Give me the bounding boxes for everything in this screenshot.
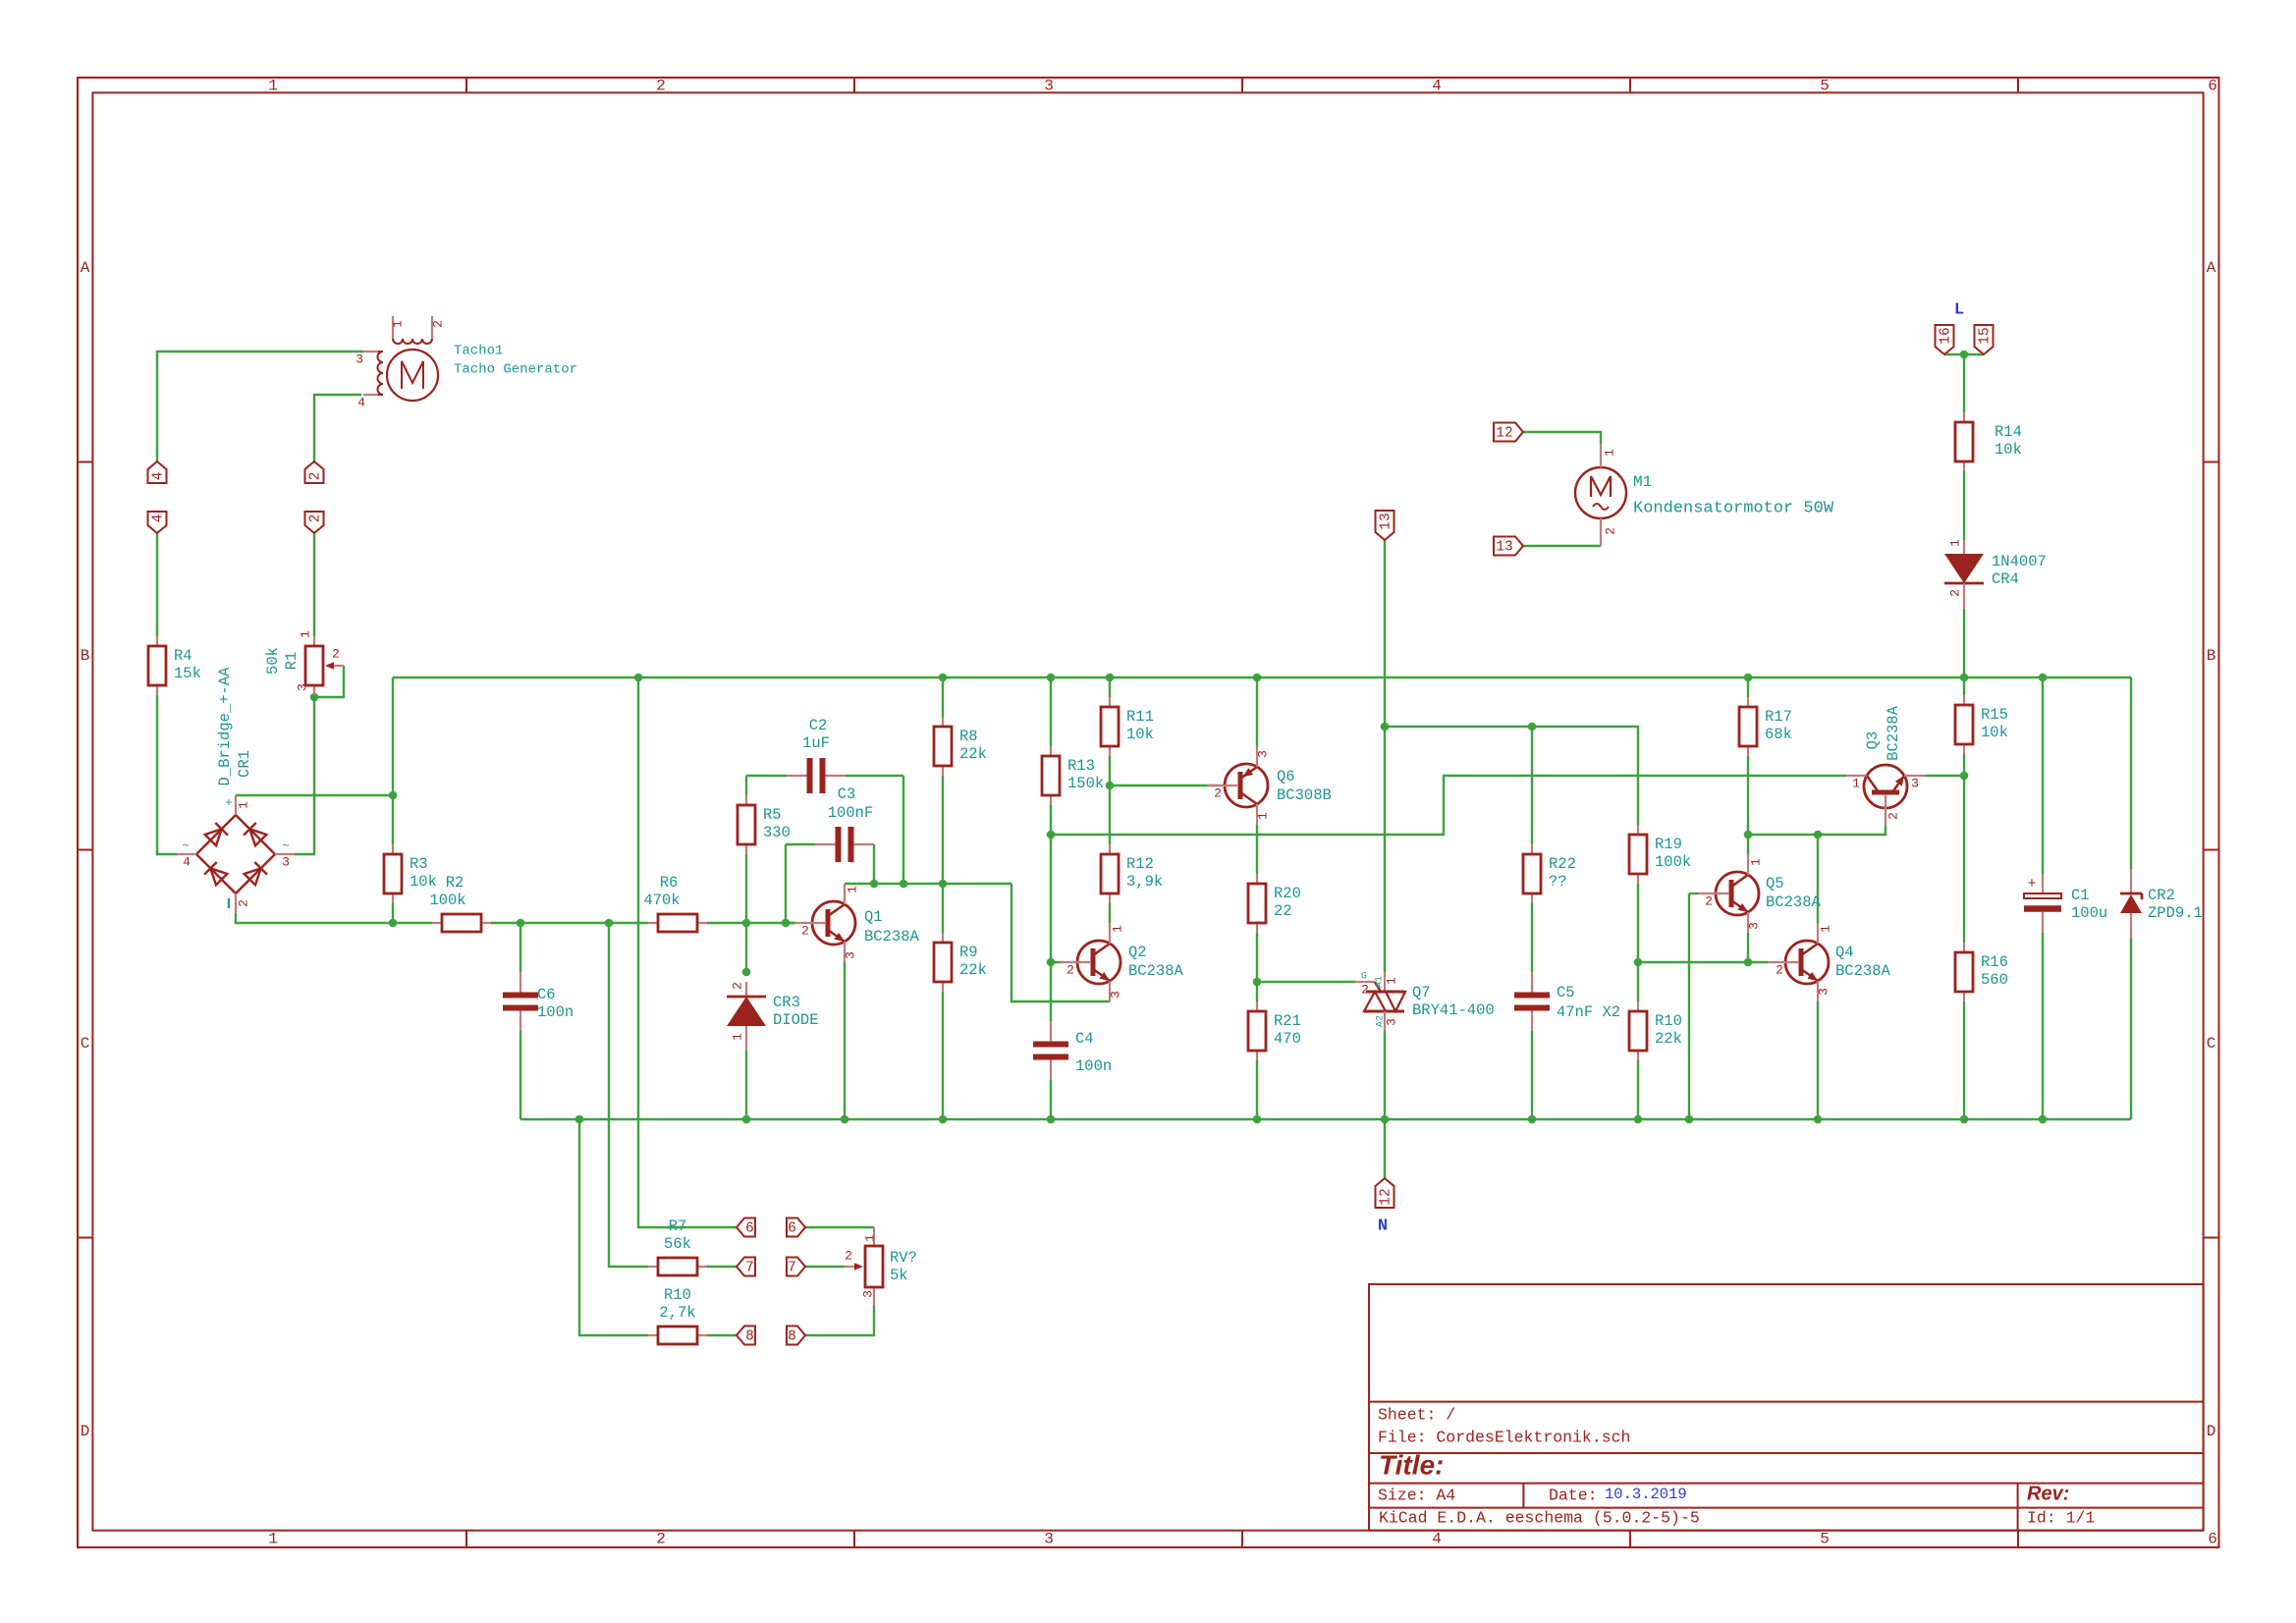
wire L to R14 [1963,354,1965,412]
global label 12 (M1) [1494,423,1523,442]
Q2 labels [1128,944,1184,980]
svg-text:1: 1 [236,801,250,809]
RV pin numbers [845,1234,877,1298]
resistor R17 [1739,697,1792,756]
svg-text:Q7: Q7 [1412,984,1431,1001]
svg-text:N: N [1378,1217,1388,1235]
wire rail to pin12 [1384,1119,1386,1178]
transistor Q6 (PNP) [1207,746,1268,825]
wire node to Q4 collector [1817,835,1819,923]
global label 8 (right) [787,1326,805,1345]
wire right rail to CR2 top [2130,677,2132,869]
junction R8 R9 collector line [939,880,948,889]
svg-text:2: 2 [656,1531,666,1548]
resistor R10 22k [1629,1001,1682,1060]
resistor R3 [384,844,437,903]
svg-text:10.3.2019: 10.3.2019 [1605,1486,1687,1503]
wire C2 node to R5 [745,776,747,795]
svg-text:~: ~ [182,839,189,853]
svg-text:C6: C6 [537,986,556,1003]
junction top rail x=960 [939,674,948,682]
svg-text:22: 22 [1274,902,1292,920]
svg-text:1: 1 [1110,925,1124,933]
title block frame [1369,1284,2204,1531]
svg-text:DIODE: DIODE [773,1011,819,1029]
wire R19 to Q4 base line [1638,961,1768,963]
wire R11 node to Q6 base [1110,784,1218,786]
wire Q3 emitter to node [1925,775,1964,777]
wire Q4 emitter to bottom rail [1817,1001,1819,1119]
svg-text:3: 3 [1044,78,1054,95]
wire gate node to R21 [1256,982,1258,1001]
svg-text:2: 2 [1066,962,1074,977]
junction bridge plus node [389,791,398,800]
diode CR4 1N4007 [1944,540,2047,609]
svg-text:2: 2 [1361,982,1369,997]
svg-text:BC238A: BC238A [864,928,920,946]
svg-text:1: 1 [1818,925,1832,933]
svg-text:4: 4 [150,472,166,481]
svg-text:R12: R12 [1126,855,1154,873]
Q1 labels [864,908,920,946]
svg-text:1: 1 [845,886,859,893]
wire R17 bottom to node [1747,756,1749,835]
svg-text:50k: 50k [264,647,282,675]
junction bottom rail x=2000 [1960,1115,1969,1124]
svg-text:R8: R8 [959,728,978,745]
junction R22 top [1528,723,1537,731]
svg-text:Q5: Q5 [1766,875,1784,893]
capacitor C5 [1514,972,1620,1031]
junction R1 wiper node [310,693,319,702]
wire node to Q2 base and C4 [1050,835,1052,1021]
svg-text:2: 2 [1886,812,1900,820]
global label 13 (net) [1376,511,1394,540]
svg-text:+: + [2027,876,2036,893]
svg-text:2: 2 [332,646,340,661]
tacho generator Tacho1 [363,316,438,401]
svg-text:47nF X2: 47nF X2 [1557,1003,1620,1021]
triac Q7 BRY41-400 [1355,972,1495,1031]
svg-text:4: 4 [1432,1531,1442,1548]
wire R3 to base line [392,903,394,923]
wire R17 top [1747,677,1749,697]
svg-text:3: 3 [1911,776,1919,790]
junction L node [1960,351,1969,359]
wire C6 top [519,923,521,972]
svg-text:C4: C4 [1075,1030,1094,1048]
junction Q5 emitter node [1744,958,1753,967]
junction bottom rail x=1410 [1381,1115,1390,1124]
Tacho1 labels [454,344,577,378]
svg-text:R3: R3 [410,855,428,873]
svg-text:2: 2 [801,923,809,938]
wire node to Q5 collector [1747,835,1749,856]
wire rail to R13 [1050,677,1052,746]
svg-text:4: 4 [150,514,166,523]
svg-text:2: 2 [656,78,666,95]
svg-text:1: 1 [390,320,405,328]
svg-text:15: 15 [1977,327,1993,344]
svg-text:Rev:: Rev: [2027,1483,2069,1504]
svg-text:C: C [81,1035,90,1053]
svg-text:Date:: Date: [1549,1486,1598,1504]
svg-text:R4: R4 [174,647,192,665]
wire CR2 bottom to rail [2130,938,2132,1119]
resistor R9 [934,933,987,992]
wire top rail +V [393,676,2131,678]
svg-text:1: 1 [298,630,312,638]
M1 labels [1633,473,1834,517]
svg-text:13: 13 [1496,539,1512,555]
wire hex4 to R4 [156,533,158,636]
wire node to R19 [1385,727,1638,825]
junction bottom rail x=1720 [1685,1115,1694,1124]
Q1 pin numbers [801,886,859,959]
svg-text:BC308B: BC308B [1277,786,1332,804]
global label 7 (left) [737,1258,755,1276]
junction bottom rail x=760 [742,1115,751,1124]
svg-text:22k: 22k [959,745,987,763]
svg-text:3: 3 [1384,1018,1398,1026]
CR4 pin numbers [1947,539,1962,597]
svg-text:Q1: Q1 [864,908,883,926]
svg-text:330: 330 [763,824,791,841]
svg-text:12: 12 [1496,425,1512,441]
junction R13 node [1047,831,1056,839]
svg-text:2: 2 [1603,527,1617,535]
svg-text:Kondensatormotor 50W: Kondensatormotor 50W [1633,499,1834,517]
wire R12 to Q2 collector [1109,903,1111,923]
border row letters [81,259,2216,1440]
svg-text:Tacho Generator: Tacho Generator [454,362,577,378]
svg-text:2: 2 [845,1248,852,1263]
svg-text:B: B [81,647,90,665]
svg-text:R13: R13 [1067,757,1095,775]
junction R5 CR3 base line [742,919,751,928]
junction C3 base line [782,919,791,928]
wire rail to R11 [1109,677,1111,697]
wire C1 bottom [2042,933,2044,1119]
wire triac gate line [1257,981,1355,983]
svg-text:5: 5 [1820,78,1830,95]
wire R10 bottom to rail [1637,1060,1639,1119]
wire node to bridge pin3 [295,697,314,854]
wire Q1 emitter to bottom rail [844,962,846,1119]
capacitor C1 100u (polarized) [2024,874,2107,933]
junction top rail x=2000 [1960,674,1969,682]
svg-text:CR2: CR2 [2148,887,2175,904]
svg-text:6: 6 [2208,78,2217,95]
svg-text:R9: R9 [959,944,978,961]
wire R8 to collector line [942,776,944,884]
svg-text:C1: C1 [2071,887,2090,904]
wire node to R22 [1531,727,1533,844]
svg-text:1: 1 [1602,449,1616,457]
wire R14 to CR4 [1963,471,1965,540]
wire RV pin3 to hex8b [805,1306,874,1335]
junction bottom rail x=860 [841,1115,849,1124]
junction CR3 top [742,968,751,977]
svg-text:Q6: Q6 [1277,768,1295,785]
global label 15 [1975,325,1994,354]
svg-text:1: 1 [862,1234,877,1242]
wire R15 to node [1963,754,1965,776]
svg-text:3: 3 [295,683,309,691]
resistor R8 [934,717,987,776]
svg-text:Id: 1/1: Id: 1/1 [2027,1508,2095,1527]
wire base line down to R7 row [609,923,648,1267]
svg-text:1: 1 [268,1531,278,1548]
svg-text:Q4: Q4 [1835,944,1854,961]
svg-text:13: 13 [1378,513,1394,529]
svg-text:10k: 10k [410,873,437,891]
svg-text:68k: 68k [1765,726,1792,743]
wire R10 to hex8 [707,1334,737,1336]
potentiometer R1 [264,636,344,695]
svg-text:3: 3 [355,352,363,366]
svg-text:5k: 5k [890,1267,908,1284]
wire R19 bottom [1637,884,1639,962]
junction top rail x=1280 [1253,674,1262,682]
svg-text:BC238A: BC238A [1885,705,1902,761]
Q5 pin numbers [1705,858,1763,930]
svg-text:R15: R15 [1981,706,2008,724]
Q3 pin numbers [1852,776,1919,819]
svg-text:Size: A4: Size: A4 [1378,1486,1455,1504]
resistor R16 [1955,943,2008,1001]
svg-text:D: D [2207,1423,2216,1440]
svg-text:R10: R10 [1655,1012,1682,1030]
svg-text:10k: 10k [1126,726,1154,743]
svg-text:BC238A: BC238A [1128,962,1184,980]
svg-text:R19: R19 [1655,836,1682,853]
wire Q5 emitter to base line [1747,933,1749,962]
Q6 pin numbers [1214,750,1270,820]
svg-text:2: 2 [1947,589,1962,597]
zener diode CR2 ZPD9.1 [2120,869,2203,938]
wire R16 to bottom rail [1963,1001,1965,1119]
wire C1 top [2042,677,2044,874]
Q4 labels [1835,944,1891,980]
svg-text:R1: R1 [283,652,301,671]
transistor Q4 [1768,923,1829,1001]
svg-text:7: 7 [788,1260,796,1275]
svg-text:470k: 470k [643,892,680,909]
resistor R6 [643,874,707,932]
wire node to R12 [1109,785,1111,844]
wire Q2 emitter to collector line [1011,884,1110,1001]
CR1 pin labels [182,796,290,908]
svg-text:??: ?? [1549,873,1567,891]
capacitor C6 [503,972,574,1031]
svg-text:3: 3 [1108,991,1122,999]
CR3 pin numbers [730,982,744,1041]
junction bottom rail x=1668 [1634,1115,1643,1124]
svg-text:3: 3 [282,854,290,869]
wire node to R10 [1637,962,1639,1001]
svg-text:C3: C3 [838,785,856,803]
svg-text:2: 2 [1214,785,1222,800]
global label 6 (left) [737,1218,755,1237]
svg-text:2: 2 [236,899,250,907]
svg-text:150k: 150k [1067,775,1104,792]
wire rail to R8 [942,677,944,717]
svg-text:Tacho1: Tacho1 [454,344,503,359]
svg-text:R2: R2 [446,874,465,892]
junction bottom rail x=1070 [1047,1115,1056,1124]
resistor R2 [429,874,491,932]
svg-text:+: + [225,796,232,810]
svg-text:1: 1 [1255,812,1270,820]
resistor R12 [1101,844,1163,903]
wire Q5 base to bottom rail [1688,893,1690,1119]
transistor Q5 [1698,854,1759,933]
transistor Q1 [794,884,855,962]
svg-text:ZPD9.1: ZPD9.1 [2148,904,2203,922]
svg-text:R22: R22 [1549,855,1576,873]
svg-text:KiCad E.D.A. eeschema (5.0.2-: KiCad E.D.A. eeschema (5.0.2-5)-5 [1379,1508,1700,1527]
svg-text:2: 2 [730,982,744,990]
svg-text:6: 6 [2208,1531,2217,1548]
motor M1 Kondensatormotor [1575,444,1626,546]
junction R3 base line [389,919,398,928]
svg-text:100u: 100u [2071,904,2107,922]
svg-text:3: 3 [1255,750,1270,758]
junction C2 collector line [900,880,908,889]
svg-text:8: 8 [788,1328,796,1344]
wire Q1 collector line [845,883,1011,885]
wire R22 to C5 [1531,903,1533,972]
global label 6 (right) [787,1218,805,1237]
svg-text:CR3: CR3 [773,994,800,1011]
svg-text:3: 3 [1044,1531,1054,1548]
wire R9 to bottom rail [942,992,944,1119]
svg-text:R6: R6 [660,874,679,892]
wire hex7b to RV wiper [805,1266,845,1268]
junction Q2 base [1047,958,1056,967]
potentiometer RV? [845,1227,917,1306]
svg-text:RV?: RV? [890,1249,917,1267]
capacitor C3 [815,785,874,862]
svg-text:~: ~ [282,839,289,853]
svg-text:1: 1 [1748,858,1763,866]
capacitor C2 [787,717,846,793]
svg-text:4: 4 [357,395,365,409]
svg-text:1: 1 [1947,539,1962,547]
capacitor C4 [1033,1021,1112,1080]
svg-text:1: 1 [1384,977,1398,985]
svg-text:7: 7 [745,1260,754,1275]
wire pin13 net vertical [1384,540,1386,727]
svg-text:100n: 100n [1075,1057,1112,1075]
diode CR3 [727,982,819,1051]
global label 8 (left) [737,1326,755,1345]
global label 4 (upper) [148,461,167,483]
global label 13 (M1) [1494,537,1523,556]
wire C6 bottom to rail [519,1031,521,1119]
global label 2 (lower) [305,512,324,533]
svg-text:3,9k: 3,9k [1126,873,1163,891]
wire R6 to Q1 base [707,922,795,924]
resistor R14 [1955,412,2022,471]
wire Q1 base stub [786,922,795,924]
Q5 labels [1766,875,1822,911]
svg-text:1: 1 [1852,776,1860,790]
svg-text:A: A [81,259,90,277]
svg-text:BC238A: BC238A [1766,893,1822,911]
svg-text:6: 6 [745,1220,754,1236]
svg-text:C: C [2207,1035,2216,1053]
svg-text:2: 2 [307,472,323,481]
wire R7 to hex7 [707,1266,737,1268]
wire collector line to R9 [942,884,944,933]
svg-text:BRY41-400: BRY41-400 [1412,1001,1495,1019]
junction top rail x=650 [634,674,643,682]
svg-text:2: 2 [307,514,323,523]
wire rail junction down to row6 [638,677,737,1227]
junction row7 tap [605,919,614,928]
resistor R20 [1248,874,1301,933]
svg-text:100n: 100n [537,1003,574,1021]
wire triac A2 to rail [1384,1031,1386,1119]
svg-text:8: 8 [745,1328,754,1344]
global label 7 (right) [787,1258,805,1276]
wire rail to R15 [1963,677,1965,695]
wire rail to R3 [392,677,394,844]
global label 16 [1936,325,1954,354]
junction C6 top [517,919,525,928]
svg-text:R5: R5 [763,806,782,824]
wire hex16-hex15 bridge [1944,353,1984,355]
svg-text:5: 5 [1820,1531,1830,1548]
svg-text:R7: R7 [669,1217,687,1235]
junction Q4 collector node [1814,831,1823,839]
svg-text:R20: R20 [1274,885,1301,902]
junction top rail x=1070 [1047,674,1056,682]
svg-text:4: 4 [183,854,191,869]
svg-text:CR1: CR1 [236,750,253,778]
wire node to triac A1 [1384,727,1386,972]
border column numbers [268,78,2217,1548]
wire tacho pin4 to hex2 [314,395,361,461]
junction bottom rail x=960 [939,1115,948,1124]
svg-text:10k: 10k [1981,724,2008,741]
wire CR4 to top rail [1963,609,1965,677]
wire C4 to bottom rail [1050,1080,1052,1119]
R1 pin numbers [295,630,339,691]
wire R1 wiper down [314,666,344,697]
Q6 labels [1277,768,1332,804]
junction bottom rail x=1560 [1528,1115,1537,1124]
junction R20 R21 gate node [1253,978,1262,987]
resistor R7 [648,1217,707,1275]
svg-text:BC238A: BC238A [1835,962,1891,980]
wire Q5 base stub [1689,893,1699,894]
svg-text:D_Bridge_+-AA: D_Bridge_+-AA [216,667,234,786]
svg-text:6: 6 [788,1220,796,1236]
wire tacho pin3 to hex4 [157,352,363,461]
wire bridge plus to R3 node [236,794,393,796]
transistor Q3 (rotated) [1846,765,1925,826]
svg-text:12: 12 [1378,1188,1394,1205]
junction R19 R10 node [1634,958,1643,967]
svg-text:M1: M1 [1633,473,1652,491]
wire R11 to node [1109,756,1111,785]
svg-text:1uF: 1uF [802,734,830,752]
svg-text:560: 560 [1981,971,2008,989]
wire rail to Q6 emitter [1256,677,1258,746]
